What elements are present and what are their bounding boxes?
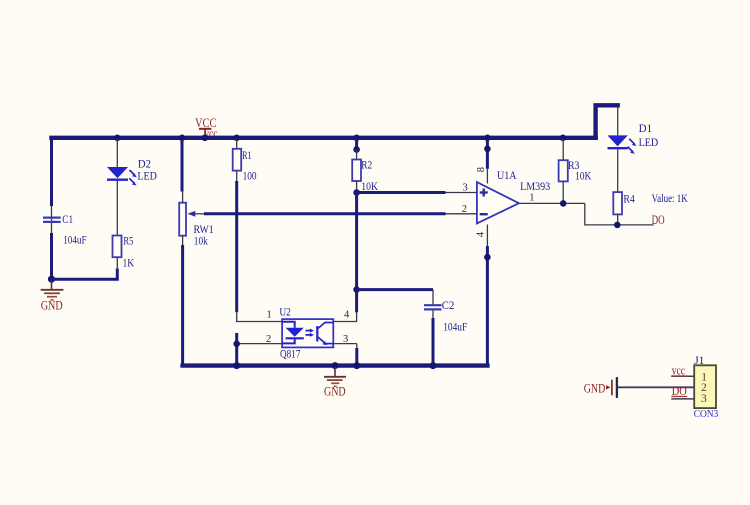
svg-text:U1A: U1A	[497, 170, 517, 182]
svg-text:C2: C2	[442, 300, 455, 312]
node GND symbol on rail	[332, 362, 339, 369]
pin number 3 of U2	[343, 334, 348, 345]
node C2 branch junction	[353, 286, 360, 293]
svg-text:RW1: RW1	[194, 224, 214, 236]
svg-text:3: 3	[701, 393, 707, 405]
wiper arrow of RW1	[188, 211, 206, 217]
wire plus input to op-amp	[357, 191, 477, 194]
svg-text:100: 100	[243, 171, 257, 183]
wire left drop to C1	[50, 136, 53, 233]
wire R1 to U2 pin1	[237, 171, 282, 322]
svg-text:104uF: 104uF	[63, 234, 86, 246]
node pin8 stub junction	[484, 146, 491, 153]
svg-text:VCC: VCC	[195, 116, 217, 130]
pin number 2 of U2	[266, 334, 271, 345]
wire rail to RW1	[181, 139, 185, 203]
node R2 top junction	[353, 146, 360, 153]
node pin4 wire junction	[484, 254, 491, 261]
connector J1	[694, 355, 719, 420]
svg-text:LM393: LM393	[520, 181, 550, 193]
svg-text:104uF: 104uF	[443, 321, 467, 333]
wire VCC rail (top horizontal)	[49, 136, 598, 140]
svg-text:1K: 1K	[123, 257, 135, 269]
potentiometer RW1	[179, 203, 214, 248]
node plus-input junction	[353, 189, 360, 196]
svg-text:C1: C1	[62, 214, 73, 226]
net label vcc (small, under VCC bar)	[204, 126, 218, 140]
net label vcc at J1	[671, 363, 687, 377]
power port GND near J1	[584, 377, 617, 398]
wire minus input from RW1 wiper to op-amp	[204, 212, 477, 215]
node pin2 on GND rail	[233, 362, 240, 369]
wire rail to D2	[116, 139, 118, 167]
wire C2 bottom to GND rail	[432, 310, 434, 365]
pin number 4 of U2	[344, 309, 350, 320]
wire D1 to R4	[617, 149, 619, 192]
node U2 pin2 junction	[233, 341, 240, 348]
svg-text:Q817: Q817	[280, 349, 301, 361]
wire U2 pin2 to GND rail	[237, 333, 282, 366]
pin number 2 of U1A	[462, 204, 467, 215]
resistor R1	[233, 139, 257, 183]
wire U2 pin3 to GND rail	[333, 344, 357, 366]
net label DO at J1	[671, 384, 687, 398]
svg-text:D1: D1	[639, 123, 653, 135]
svg-text:U2: U2	[279, 307, 291, 319]
wire R2 node down to U2 pin4	[333, 193, 356, 322]
pin stub J1 pin1	[671, 375, 694, 377]
wire rail to R2	[355, 139, 358, 150]
wire C2 branch horizontal	[357, 290, 433, 305]
pin number 3 of U1A	[463, 182, 468, 193]
node RW1 branch on rail	[179, 135, 186, 142]
wire R2 bottom stub	[356, 181, 358, 193]
svg-text:R5: R5	[123, 236, 133, 248]
wire R3 bottom to output	[562, 181, 564, 203]
wire R5 bottom to ground node	[52, 269, 118, 280]
wire op-amp output to DO	[520, 203, 654, 225]
node R2 branch on rail	[353, 135, 360, 142]
svg-text:D2: D2	[138, 159, 151, 171]
wire R5 bottom stub	[116, 257, 118, 269]
pin number 4 of U1A	[476, 231, 487, 237]
svg-text:1: 1	[529, 193, 534, 204]
node R1 branch on rail	[233, 135, 240, 142]
resistor R5	[113, 236, 135, 270]
wire op-amp pin4 to GND rail	[486, 246, 489, 364]
pin number 1 of U2	[267, 309, 272, 320]
wire D2 to R5	[116, 181, 118, 236]
pin 8 lead of U1A	[486, 169, 488, 184]
svg-text:10K: 10K	[575, 171, 592, 183]
node C2 on GND rail	[430, 362, 437, 369]
node ground-left junction	[48, 276, 55, 283]
optocoupler U2	[279, 307, 333, 361]
node VCC stub junction	[202, 135, 209, 142]
wire rail to op-amp pin8	[486, 139, 489, 169]
svg-text:8: 8	[476, 167, 487, 172]
svg-text:10k: 10k	[194, 236, 208, 248]
wire top-right elbow to D1	[596, 105, 620, 140]
svg-text:R4: R4	[623, 194, 635, 206]
ground symbol GND middle	[324, 367, 346, 398]
svg-text:CON3: CON3	[694, 409, 719, 420]
op-amp U1A	[477, 170, 551, 223]
wire RW1 bottom drop	[182, 236, 184, 364]
resistor R4	[613, 192, 635, 214]
svg-text:GND: GND	[324, 384, 346, 398]
svg-text:2: 2	[701, 382, 707, 394]
pin 4 lead of U1A	[486, 225, 488, 247]
wire R4 bottom stub	[617, 214, 619, 225]
power symbol VCC	[195, 116, 217, 137]
svg-text:R2: R2	[361, 160, 372, 172]
LED D1	[608, 108, 659, 154]
svg-text:3: 3	[463, 182, 468, 193]
svg-text:4: 4	[476, 231, 487, 237]
svg-text:2: 2	[462, 204, 467, 215]
ground symbol GND left	[41, 281, 64, 313]
node op-amp pin8 on rail	[484, 135, 491, 142]
node pin3 on GND rail	[353, 362, 360, 369]
resistor R2	[352, 150, 378, 194]
node output R3 junction	[560, 200, 567, 207]
pin number 8 of U1A	[476, 167, 487, 172]
node D2 branch on rail	[114, 135, 121, 142]
pin stub J1 pin3	[671, 398, 694, 400]
wire C1 bottom to ground node	[50, 233, 53, 281]
svg-text:1: 1	[267, 309, 272, 320]
capacitor C1	[43, 214, 87, 247]
wire GND rail (bottom horizontal)	[180, 363, 489, 367]
node DO junction	[614, 222, 621, 229]
svg-text:R1: R1	[242, 150, 252, 162]
svg-text:GND: GND	[41, 299, 63, 313]
svg-text:4: 4	[344, 309, 350, 320]
LED D2	[107, 159, 157, 186]
wire GND port to J1 pin2	[618, 386, 694, 388]
svg-text:GND: GND	[584, 381, 606, 395]
svg-text:Value: 1K: Value: 1K	[652, 193, 689, 205]
resistor R3	[559, 139, 592, 183]
svg-text:DO: DO	[652, 213, 665, 227]
svg-text:LED: LED	[639, 137, 659, 149]
capacitor C2	[424, 300, 467, 334]
value label of R4	[652, 193, 689, 205]
node R3 on rail	[560, 135, 567, 142]
pin number 1 of U1A	[529, 193, 534, 204]
svg-text:J1: J1	[694, 355, 704, 367]
svg-text:2: 2	[266, 334, 271, 345]
net label DO	[652, 213, 665, 227]
svg-text:LED: LED	[137, 170, 157, 182]
